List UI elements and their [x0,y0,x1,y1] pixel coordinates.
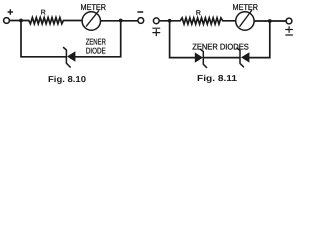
svg-text:METER: METER [81,2,107,12]
svg-text:Fig. 8.10: Fig. 8.10 [48,74,86,84]
svg-text:Fig. 8.11: Fig. 8.11 [197,73,237,83]
svg-text:METER: METER [233,2,259,12]
svg-text:R: R [41,10,46,17]
svg-text:R: R [196,10,201,17]
svg-text:ZENER DIODES: ZENER DIODES [192,41,249,51]
svg-text:DIODE: DIODE [86,46,106,56]
